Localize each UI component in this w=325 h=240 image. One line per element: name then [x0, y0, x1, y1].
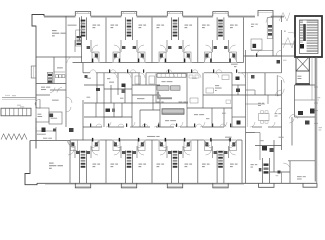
bath walls at x=175	[166, 146, 168, 158]
serving counter L band	[158, 92, 172, 99]
patient core shaft at x=175	[171, 17, 173, 40]
core dark fixtures at x=129	[127, 20, 132, 22]
patient room labels at x=175	[157, 164, 161, 165]
corridor upper: north wall	[65, 62, 68, 64]
toilet fixtures east of activity rm	[236, 77, 240, 81]
bottom-right patient room	[245, 140, 247, 183]
right wing door arcs	[276, 90, 282, 96]
nurse station lower label	[165, 119, 169, 122]
patient room labels at x=175	[157, 25, 161, 26]
right wing north wall	[246, 55, 296, 57]
corridor scallop arcs upper	[90, 70, 96, 73]
housekeeping room	[35, 127, 37, 141]
vestibule wall at stair	[282, 43, 296, 45]
patient room labels at x=129	[111, 25, 115, 26]
patient room labels at x=220.5	[202, 25, 206, 26]
soiled linen label	[43, 137, 47, 140]
label children activity dining	[49, 163, 54, 164]
bath fixtures at x=83	[92, 52, 99, 63]
right wall ticks	[314, 110, 318, 112]
middle toilet fixtures A	[96, 88, 100, 91]
bottom band room divider walls	[105, 140, 107, 183]
patient room labels at x=129	[111, 164, 115, 165]
bottom-right wc fixtures	[259, 168, 262, 171]
corridor door arcs top band	[67, 57, 73, 63]
storage label mid	[222, 112, 226, 115]
elevator chase	[311, 57, 313, 100]
telephone room fixture	[50, 114, 54, 118]
bath fixtures at x=129	[113, 52, 120, 63]
elev equip room	[36, 108, 49, 122]
bath walls at x=220.5	[212, 146, 214, 158]
patient core shaft at x=175	[171, 151, 173, 184]
right wing upper fixtures	[277, 60, 281, 64]
bath fixtures at x=175	[159, 140, 166, 151]
bath door arcs at x=220.5	[206, 52, 213, 59]
staff lounge label	[179, 101, 183, 104]
right wing fixtures	[298, 111, 303, 115]
core dark fixtures at x=175	[173, 151, 178, 153]
nurse station upper counter band	[157, 74, 186, 78]
wall: right exterior	[314, 57, 316, 182]
stair ST-2 treads	[307, 20, 318, 22]
corridor lower: north wall	[83, 126, 102, 128]
left corridor label	[52, 99, 59, 102]
right wall ticks extra	[314, 86, 318, 88]
toilet label mid	[120, 97, 123, 100]
bath door arcs at x=220.5	[206, 141, 213, 148]
bath walls at x=129	[120, 40, 122, 52]
room: adult activity dining east wall	[65, 16, 67, 57]
bath walls at x=175	[166, 40, 168, 52]
canopy ramp zigzag	[1, 134, 27, 140]
left wing misc walls	[55, 127, 57, 140]
elevator lobby vestibule	[276, 75, 278, 96]
bottom-left corner block	[25, 174, 37, 185]
left corridor door arcs	[66, 97, 72, 103]
core dark fixtures at x=83	[81, 20, 86, 22]
bath walls at x=83	[74, 40, 76, 52]
core dark fixtures at x=83	[81, 151, 86, 153]
activity room furniture	[189, 75, 193, 78]
elevator sill dark band	[295, 83, 310, 85]
room: children activity dining (bottom-left)	[30, 140, 70, 142]
bath fixtures at x=175	[159, 52, 166, 63]
core dark fixtures at x=175	[173, 20, 178, 22]
patient core shaft at x=220.5	[216, 17, 218, 40]
patient core shaft at x=83	[79, 17, 81, 40]
activity table	[206, 88, 214, 93]
unit separation wall double line	[246, 73, 248, 127]
patient room labels at x=220.5	[202, 164, 206, 165]
clean utility label	[87, 96, 91, 99]
office door arc bottom-right	[283, 163, 290, 170]
building shell: top-left corner block	[32, 15, 44, 27]
adult activity rm label	[215, 84, 219, 87]
nurse station shelving B	[171, 86, 181, 90]
window bay bottom 2	[121, 183, 136, 188]
door leaves lower corridor	[90, 124, 91, 127]
dining label	[192, 77, 197, 80]
wall: top exterior	[44, 15, 75, 17]
top-right lobby walls	[273, 55, 282, 57]
middle rooms vertical walls	[96, 73, 98, 103]
door leaves upper corridor	[109, 69, 110, 72]
grade note	[17, 104, 21, 107]
bath walls at x=220.5	[212, 40, 214, 52]
seclusion bed symbols	[135, 76, 141, 84]
label adult activity dining top	[52, 30, 57, 31]
clean utility fixture	[85, 75, 88, 78]
stair ST-2 center wall	[303, 24, 306, 41]
janitor fixtures mid-left	[69, 128, 74, 132]
shift lounge door arc	[50, 88, 55, 93]
west wall bay	[31, 66, 36, 78]
canopy label	[20, 105, 24, 108]
top band room divider walls	[105, 17, 107, 62]
telephone room	[49, 112, 62, 124]
bath door arcs at x=175	[160, 52, 167, 59]
bath door arcs at x=83	[91, 52, 98, 59]
dayroom walls	[246, 132, 256, 134]
laundry machines	[56, 75, 59, 78]
bath fixtures at x=220.5	[205, 140, 212, 151]
audio visual room label	[194, 113, 198, 116]
stair ST-2 landing dark	[300, 44, 304, 49]
break line marks near stair	[279, 13, 290, 22]
room: adult activity dining (top-left) south wall	[36, 56, 82, 58]
right wing rooms	[246, 94, 282, 96]
right edge notes	[318, 96, 321, 99]
middle toilet fixtures B	[106, 109, 111, 112]
window bay bottom right A	[259, 183, 275, 187]
housekeeping fixtures	[42, 128, 46, 133]
patient core shaft at x=129	[125, 17, 127, 40]
office room label	[109, 81, 114, 84]
canopy columns	[1, 108, 31, 116]
nurse station upper label	[162, 80, 166, 83]
bath fixtures at x=220.5	[205, 52, 212, 63]
wall: bottom exterior	[37, 182, 317, 184]
lobby door arcs	[276, 50, 282, 56]
nurse station west wall	[155, 74, 157, 104]
bath walls at x=129	[120, 146, 122, 158]
right wing corridor wall	[281, 80, 283, 150]
exam consult labels right wing	[275, 112, 278, 115]
corridor lower labels	[147, 135, 155, 138]
closet bump top-right	[258, 11, 273, 17]
window bay top 2	[121, 12, 136, 17]
stair ST-2 shaft	[300, 20, 319, 54]
bottom-right rooms walls	[273, 140, 275, 172]
core dark fixtures at x=220.5	[218, 151, 223, 153]
top-right room bath	[251, 39, 262, 50]
passenger elevator 2	[296, 71, 309, 84]
stair label leader	[284, 30, 286, 33]
corridor door arcs bottom band	[67, 140, 73, 146]
geriatric dayroom	[258, 102, 261, 105]
laundry room	[53, 57, 55, 84]
patient core shaft at x=129	[125, 151, 127, 184]
bath door arcs at x=83	[68, 141, 75, 148]
vestibule door arcs	[35, 99, 40, 104]
top-right room door leaf	[256, 54, 257, 57]
bath door arcs at x=175	[160, 141, 167, 148]
nurse station lower counter hatch	[162, 109, 184, 114]
corridor note right wing	[283, 59, 286, 62]
middle block door arcs	[112, 73, 117, 78]
bath fixtures at x=83	[71, 140, 78, 151]
soiled utility label	[87, 77, 91, 80]
stair tower ST-2 outer walls	[295, 16, 322, 57]
toilet label mid2	[206, 117, 209, 120]
window bay bottom 4	[213, 183, 228, 188]
window bay bottom 1	[75, 183, 90, 188]
wall: left exterior lower	[35, 118, 37, 149]
patient core shaft at x=220.5	[216, 151, 218, 184]
room: nourishment north of corridor	[81, 16, 83, 62]
bath door arcs at x=129	[114, 141, 121, 148]
patient room labels at x=83	[93, 164, 97, 165]
bath fixtures at x=129	[113, 140, 120, 151]
window bay top 1	[75, 12, 90, 17]
window bay top 3	[167, 12, 182, 17]
chart label	[157, 101, 161, 104]
corridor lower: south wall	[70, 139, 73, 141]
window bay top 4	[213, 12, 228, 17]
linen chute fixtures	[47, 73, 52, 84]
wall: left exterior upper	[35, 26, 37, 108]
window bay bottom 3	[167, 183, 182, 188]
shift staff lounge label	[41, 86, 45, 89]
exam room label	[107, 77, 110, 80]
middle rooms horizontal walls	[104, 88, 132, 90]
corridor upper: south wall	[83, 72, 90, 74]
office label bottom-right	[297, 175, 302, 178]
bath door arcs at x=129	[114, 52, 121, 59]
seclusion label	[137, 97, 144, 100]
core dark fixtures at x=129	[127, 151, 132, 153]
corridor upper label	[231, 63, 238, 66]
elevator shaft with X	[296, 57, 309, 71]
bottom-right core shaft	[262, 158, 264, 183]
left wing walls	[65, 57, 67, 95]
patient room labels at x=83	[93, 25, 97, 26]
wall: bottom-left room west	[29, 141, 31, 175]
patient core shaft at x=83	[79, 151, 81, 184]
top-right room wardrobe column	[267, 18, 272, 39]
top-right patient room east wall	[272, 16, 274, 56]
right wing small walls	[246, 89, 256, 91]
core dark fixtures at x=220.5	[218, 20, 223, 22]
window bay bottom right B	[303, 183, 317, 187]
bath walls at x=83	[74, 146, 76, 158]
entry leader note	[12, 94, 16, 97]
corridor upper: north wall east part	[244, 55, 255, 57]
entry walk edge	[2, 97, 36, 99]
nurse station shelving A	[157, 86, 169, 90]
corridor scallop arcs lower	[96, 124, 102, 127]
nourishment fixtures	[77, 36, 82, 38]
